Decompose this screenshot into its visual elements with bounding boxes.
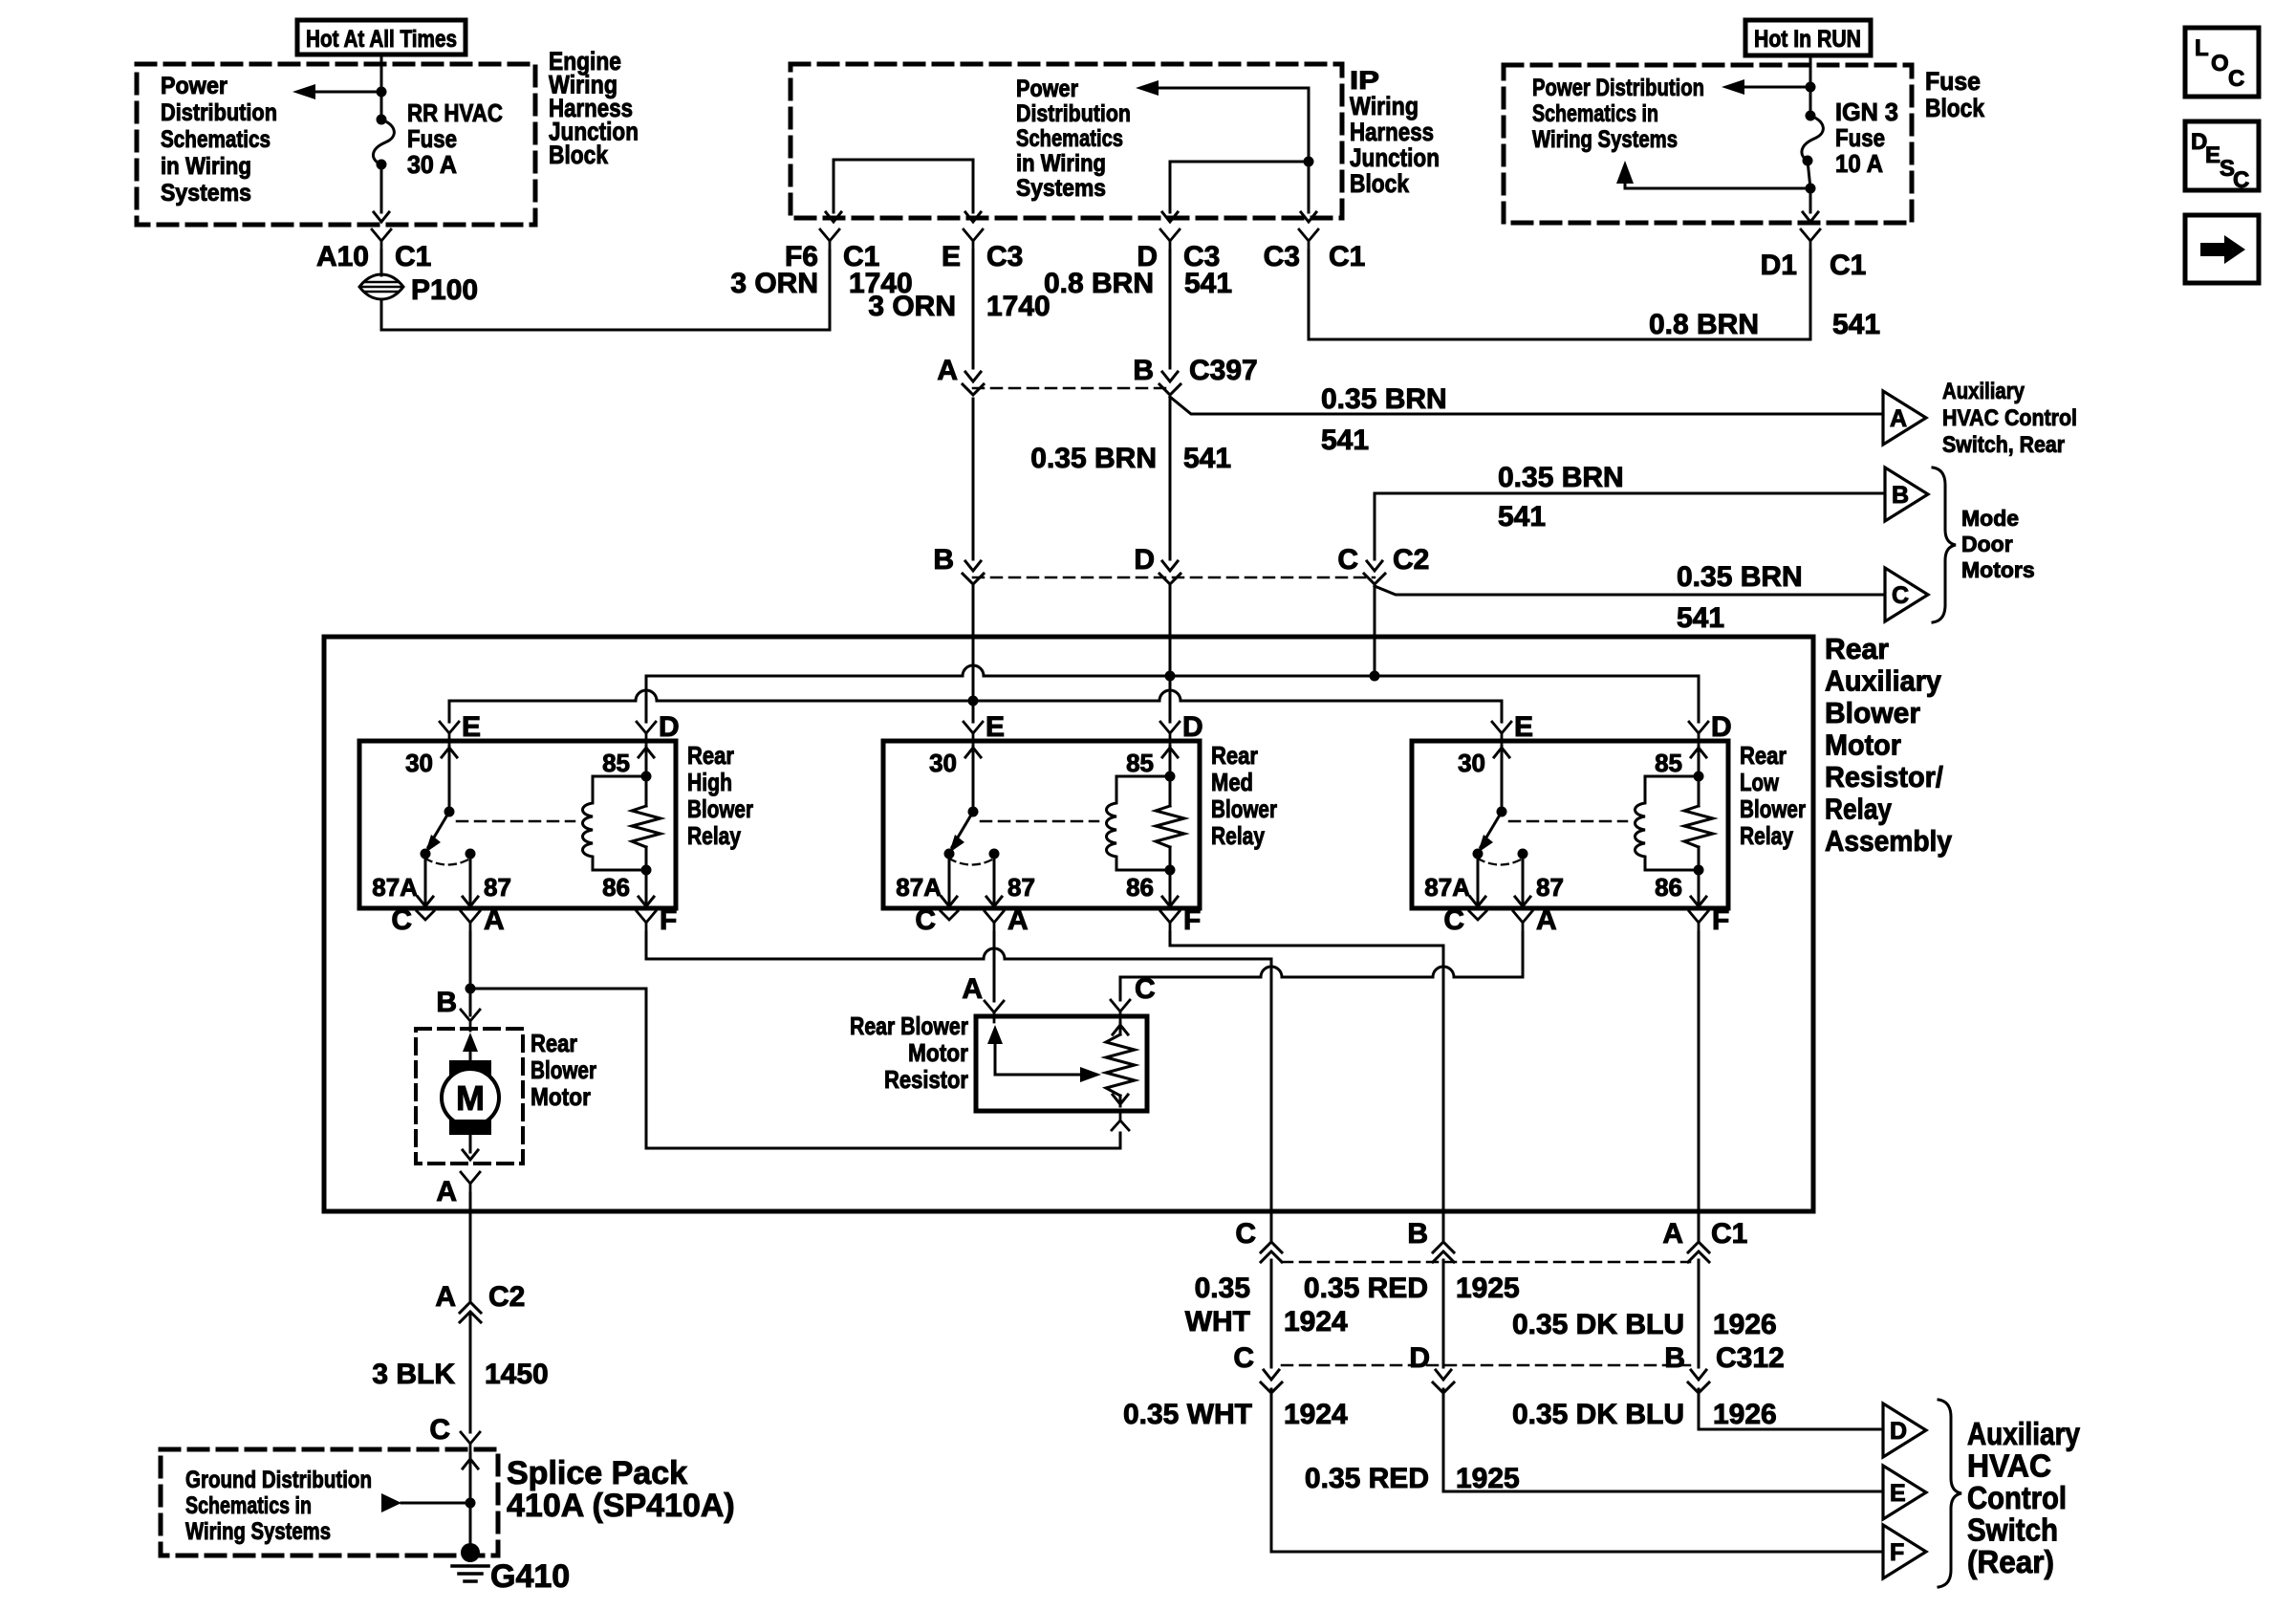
ground distribution box (dashed) — [161, 1449, 498, 1556]
svg-text:C: C — [1337, 544, 1358, 576]
relay High connector F (86) — [637, 911, 656, 923]
svg-text:Mode: Mode — [1961, 506, 2019, 531]
svg-text:L: L — [2195, 35, 2209, 61]
svg-text:0.35 RED: 0.35 RED — [1305, 1463, 1429, 1494]
dashed connector line C312 — [1282, 1364, 1690, 1367]
wire: splice into ground box — [469, 1453, 472, 1553]
svg-text:F: F — [660, 904, 677, 936]
connector D (relay Low pin 85) — [1689, 722, 1708, 733]
svg-text:87: 87 — [484, 873, 511, 902]
svg-text:3 ORN: 3 ORN — [730, 268, 818, 299]
svg-text:C1: C1 — [1830, 250, 1866, 281]
wire: internal bus to F6 and E drops — [834, 160, 973, 212]
svg-text:Med: Med — [1211, 768, 1253, 796]
svg-text:0.35 RED: 0.35 RED — [1304, 1273, 1428, 1304]
svg-text:Motor: Motor — [1825, 729, 1901, 762]
relay Med coil — [1107, 776, 1171, 870]
svg-text:87A: 87A — [1424, 873, 1470, 902]
svg-text:Motor: Motor — [908, 1038, 968, 1067]
svg-text:F: F — [1183, 904, 1201, 936]
bus wire: 0.35 BRN 541 control bus — [646, 665, 1699, 676]
relay Low dashed actuator link — [1509, 820, 1627, 823]
svg-text:A: A — [484, 904, 505, 936]
rear blower motor resistor box — [976, 1016, 1147, 1111]
svg-text:3 ORN: 3 ORN — [868, 291, 956, 322]
svg-text:87A: 87A — [896, 873, 942, 902]
dashed connector line C2 row — [973, 577, 1375, 579]
relay: Rear Low Blower Relay box — [1412, 741, 1728, 908]
svg-text:Switch, Rear: Switch, Rear — [1942, 432, 2065, 458]
wire: fuse output — [1808, 161, 1810, 188]
svg-text:85: 85 — [1655, 749, 1682, 777]
wire: motor ground down — [469, 1193, 472, 1302]
svg-text:C: C — [391, 904, 412, 936]
svg-text:C3: C3 — [1264, 241, 1300, 272]
svg-text:Block: Block — [1925, 94, 1985, 122]
svg-text:541: 541 — [1677, 602, 1724, 634]
connector A (resistor) — [985, 1001, 1004, 1012]
relay: Rear High Blower Relay box — [359, 741, 676, 908]
ground G410 — [461, 1543, 480, 1562]
LOC reference box — [2185, 28, 2259, 97]
relay Low switch — [1497, 807, 1507, 817]
wire: battery feed from Hot At All Times — [380, 54, 383, 120]
svg-text:C: C — [1443, 904, 1464, 936]
svg-text:Wiring Systems: Wiring Systems — [185, 1518, 331, 1545]
IP wiring harness junction block (dashed) — [791, 64, 1342, 218]
grommet P100 — [359, 274, 403, 299]
svg-text:B: B — [933, 544, 954, 576]
svg-text:85: 85 — [602, 749, 630, 777]
svg-text:Junction: Junction — [1350, 143, 1440, 172]
relay High connector A (87) — [461, 911, 480, 923]
triangle connector D — [1883, 1403, 1926, 1457]
svg-text:Systems: Systems — [1016, 175, 1106, 202]
svg-text:Blower: Blower — [687, 794, 753, 823]
svg-text:Auxiliary: Auxiliary — [1942, 379, 2025, 404]
svg-text:Hot In RUN: Hot In RUN — [1754, 26, 1861, 53]
wire: 0.35 DK BLU 1926 to switch D — [1699, 1389, 1883, 1429]
svg-text:C1: C1 — [1711, 1218, 1747, 1250]
wire: internal bus to D drop — [1170, 162, 1309, 212]
svg-text:IP: IP — [1350, 66, 1379, 95]
connector D (relay Med pin 85) — [1160, 722, 1180, 733]
svg-text:in Wiring: in Wiring — [161, 153, 251, 180]
blower motor symbol — [449, 1060, 491, 1076]
arrow branch: power distribution reference (up arrow) — [1625, 178, 1810, 188]
bus1 end drops to relay coils — [645, 676, 648, 722]
triangle connector F — [1883, 1525, 1926, 1578]
svg-text:Blower: Blower — [1211, 794, 1277, 823]
svg-text:M: M — [456, 1078, 485, 1118]
relay Low internal resistor — [1684, 806, 1713, 847]
connector C1 pin C — [1261, 1242, 1282, 1252]
svg-text:G410: G410 — [490, 1558, 570, 1595]
svg-text:1926: 1926 — [1713, 1309, 1777, 1340]
svg-text:Resistor: Resistor — [884, 1065, 968, 1094]
wire: E drop to relay2 switch — [972, 701, 975, 722]
connector E (relay High pin 30) — [440, 722, 459, 733]
wire: 3 ORN 1740 engine feed to IP block pin F6 — [381, 250, 830, 330]
svg-text:Auxiliary: Auxiliary — [1825, 664, 1942, 698]
svg-text:A: A — [1662, 1218, 1683, 1250]
svg-text:30: 30 — [405, 749, 433, 777]
relay Med pin 87 output — [993, 854, 996, 906]
wire: C2 drop into assembly box — [1374, 586, 1376, 676]
triangle connector C — [1885, 568, 1928, 621]
svg-text:Relay: Relay — [687, 821, 741, 850]
svg-text:86: 86 — [602, 873, 630, 902]
svg-text:in Wiring: in Wiring — [1016, 150, 1106, 177]
svg-text:C3: C3 — [986, 241, 1023, 272]
svg-text:Block: Block — [1350, 169, 1410, 198]
connector C312 pin C — [1264, 1370, 1279, 1380]
svg-text:Motor: Motor — [531, 1082, 591, 1111]
svg-text:Relay: Relay — [1740, 821, 1793, 850]
svg-text:1924: 1924 — [1284, 1399, 1348, 1430]
fuse IGN 3 10A — [1806, 111, 1816, 121]
svg-text:C: C — [1892, 582, 1909, 609]
svg-text:E: E — [1514, 711, 1533, 743]
wire: E drop into assembly box — [972, 586, 975, 701]
svg-text:C: C — [2233, 167, 2249, 193]
svg-text:Relay: Relay — [1825, 793, 1893, 826]
relay High cavity C (87A) — [417, 911, 434, 920]
svg-text:A: A — [962, 973, 983, 1005]
relay High dashed actuator link — [457, 820, 574, 823]
svg-text:(Rear): (Rear) — [1967, 1544, 2054, 1579]
svg-text:Fuse: Fuse — [407, 124, 457, 153]
svg-text:Blower: Blower — [1825, 696, 1920, 729]
svg-text:0.35 WHT: 0.35 WHT — [1123, 1399, 1252, 1430]
wire: E drop continues — [972, 399, 975, 559]
svg-text:0.8 BRN: 0.8 BRN — [1044, 268, 1154, 299]
wire: relay2 87 to resistor A — [993, 932, 996, 1001]
relay High pin 30 input — [442, 748, 457, 757]
svg-text:D: D — [1134, 544, 1155, 576]
svg-text:Assembly: Assembly — [1825, 824, 1953, 858]
svg-text:D: D — [659, 711, 680, 743]
svg-text:Schematics in: Schematics in — [1532, 100, 1658, 127]
svg-text:D: D — [1409, 1342, 1430, 1374]
wire: fuse output to connector D1 — [1809, 188, 1812, 212]
engine wiring harness junction block (dashed) — [137, 64, 535, 225]
arrow reference box — [2185, 215, 2259, 283]
svg-text:410A (SP410A): 410A (SP410A) — [507, 1488, 735, 1524]
resistor element — [1106, 1034, 1135, 1096]
relay Low cavity C (87A) — [1469, 911, 1486, 920]
wire: relay2 86/F to C1 pin B — [1170, 932, 1443, 1240]
motor ground lead — [469, 1135, 472, 1152]
svg-text:Relay: Relay — [1211, 821, 1265, 850]
svg-text:D: D — [1182, 711, 1203, 743]
svg-text:Schematics: Schematics — [161, 126, 271, 153]
svg-text:C1: C1 — [395, 241, 431, 272]
connector E (relay Low pin 30) — [1492, 722, 1511, 733]
wire: D drop continues — [1169, 399, 1172, 559]
wire: E drop down — [972, 250, 975, 368]
svg-text:86: 86 — [1126, 873, 1154, 902]
connector C1 pin B — [1433, 1242, 1454, 1252]
svg-text:Distribution: Distribution — [1016, 100, 1131, 127]
svg-text:B: B — [436, 987, 457, 1018]
relay Low pin 86 — [1698, 847, 1700, 906]
svg-text:0.35: 0.35 — [1195, 1273, 1250, 1304]
svg-text:C2: C2 — [1393, 544, 1429, 576]
relay Low coil — [1635, 776, 1700, 870]
svg-text:30 A: 30 A — [407, 150, 457, 179]
svg-text:Wiring Systems: Wiring Systems — [1532, 126, 1678, 153]
relay Med pin 86 — [1169, 847, 1172, 906]
svg-text:Rear Blower: Rear Blower — [850, 1012, 968, 1040]
svg-text:541: 541 — [1321, 424, 1369, 456]
wire: 0.8 BRN 541 from C3/C1 to fuse block D1 — [1309, 250, 1810, 339]
svg-text:C: C — [915, 904, 936, 936]
relay Med switch — [968, 807, 979, 817]
label box: Hot At All Times — [297, 20, 466, 54]
svg-text:F: F — [1890, 1539, 1904, 1566]
motor feed arrow — [463, 1033, 478, 1052]
svg-text:HVAC: HVAC — [1967, 1448, 2051, 1484]
svg-text:High: High — [687, 768, 732, 796]
wire: relay1 87 to motor B and resistor network — [469, 932, 472, 1015]
relay Low connector A (87) — [1513, 911, 1532, 923]
relay Med pin 30 input — [965, 748, 981, 757]
svg-text:Systems: Systems — [161, 180, 251, 207]
svg-text:O: O — [2211, 51, 2229, 76]
svg-text:A: A — [1536, 904, 1557, 936]
connector D (relay High pin 85) — [637, 722, 656, 733]
svg-text:A: A — [435, 1281, 456, 1313]
svg-text:0.8 BRN: 0.8 BRN — [1649, 309, 1759, 340]
wire: fuse output to connector — [380, 164, 383, 212]
connector E (relay Med pin 30) — [964, 722, 983, 733]
svg-text:541: 541 — [1183, 443, 1231, 474]
connector D1 / C1 — [1801, 229, 1820, 241]
relay High pin 87A output — [424, 854, 427, 906]
svg-text:WHT: WHT — [1185, 1306, 1250, 1338]
svg-text:87A: 87A — [372, 873, 418, 902]
splice junction — [466, 1498, 476, 1509]
svg-text:IGN 3: IGN 3 — [1835, 98, 1898, 126]
connector B (motor) — [461, 1010, 480, 1021]
svg-text:C1: C1 — [1329, 241, 1365, 272]
connector C2 pin C — [1367, 561, 1382, 571]
svg-text:0.35 BRN: 0.35 BRN — [1030, 443, 1157, 474]
svg-text:Blower: Blower — [531, 1055, 596, 1084]
svg-text:Power: Power — [1016, 76, 1078, 102]
wire: D drop through bus2 to relay2 coil — [1169, 676, 1172, 722]
svg-text:E: E — [1890, 1480, 1906, 1507]
svg-text:Power: Power — [161, 73, 227, 99]
wire: 0.8 BRN 541 down — [1809, 250, 1812, 339]
svg-text:A: A — [436, 1176, 457, 1207]
relay Med dashed actuator link — [981, 820, 1098, 823]
svg-text:0.35 BRN: 0.35 BRN — [1321, 383, 1447, 415]
relay Med pin 87A output — [948, 854, 951, 906]
resistor wiper arrow — [994, 1034, 997, 1075]
connector D / C3 — [1160, 229, 1180, 241]
rear auxiliary blower motor resistor/relay assembly box — [324, 637, 1813, 1211]
relay Med internal resistor — [1156, 806, 1184, 847]
svg-text:1926: 1926 — [1713, 1399, 1777, 1430]
svg-text:1925: 1925 — [1456, 1273, 1520, 1304]
svg-text:C2: C2 — [488, 1281, 525, 1313]
svg-text:A10: A10 — [316, 241, 369, 272]
svg-text:Distribution: Distribution — [161, 99, 277, 126]
wire: D drop into assembly box — [1169, 586, 1172, 676]
connector A10 / C1 — [372, 229, 391, 241]
wire: 3 BLK 1450 — [469, 1313, 472, 1432]
svg-text:0.35 DK BLU: 0.35 DK BLU — [1512, 1309, 1684, 1340]
relay Low pin 87A output — [1477, 854, 1480, 906]
svg-text:Auxiliary: Auxiliary — [1967, 1416, 2081, 1451]
connector F6 / C1 — [820, 229, 839, 241]
svg-text:1925: 1925 — [1456, 1463, 1520, 1494]
svg-text:Blower: Blower — [1740, 794, 1806, 823]
svg-text:3 BLK: 3 BLK — [372, 1359, 455, 1390]
relay High internal resistor — [632, 806, 661, 847]
svg-text:Resistor/: Resistor/ — [1825, 760, 1943, 794]
fuse RR HVAC 30A — [377, 115, 387, 125]
svg-text:0.35 BRN: 0.35 BRN — [1677, 561, 1803, 593]
arrow: to power distribution schematics (fuse) — [1733, 86, 1810, 89]
triangle connector B — [1885, 468, 1928, 521]
relay Med connector F (86) — [1160, 911, 1180, 923]
svg-text:C: C — [429, 1414, 450, 1446]
wire: relay3 86/F to C1 pin A — [1698, 932, 1700, 1240]
svg-text:541: 541 — [1184, 268, 1232, 299]
svg-text:Block: Block — [549, 141, 609, 169]
svg-text:Motors: Motors — [1961, 557, 2035, 582]
triangle connector A — [1883, 391, 1926, 445]
triangle connector E — [1883, 1466, 1926, 1519]
connector C2 row pin D — [1162, 561, 1178, 571]
svg-text:87: 87 — [1536, 873, 1564, 902]
wire: 0.35 WHT 1924 to switch F — [1271, 1389, 1883, 1552]
wire: mode door B feed from C2 — [1375, 493, 1885, 559]
relay High coil — [583, 776, 647, 870]
svg-text:E: E — [986, 711, 1005, 743]
brace: auxiliary HVAC control switch — [1939, 1400, 1961, 1587]
svg-text:85: 85 — [1126, 749, 1154, 777]
svg-text:Rear: Rear — [1825, 632, 1889, 665]
svg-text:F: F — [1712, 904, 1729, 936]
resistor bottom connector Y — [1119, 1111, 1122, 1120]
svg-text:Low: Low — [1740, 768, 1780, 796]
svg-text:Schematics in: Schematics in — [185, 1492, 312, 1519]
svg-text:Schematics: Schematics — [1016, 125, 1123, 152]
wire to grommet — [380, 250, 383, 275]
svg-text:Splice Pack: Splice Pack — [507, 1455, 687, 1491]
relay Low pin 85 coil feed — [1691, 748, 1706, 757]
svg-text:Switch: Switch — [1967, 1512, 2058, 1548]
svg-text:Wiring: Wiring — [1350, 92, 1419, 120]
svg-text:A: A — [1890, 405, 1907, 432]
svg-text:0.35 DK BLU: 0.35 DK BLU — [1512, 1399, 1684, 1430]
arrow: to power distribution schematics (engine) — [304, 91, 381, 94]
relay Low pin 30 input — [1494, 748, 1509, 757]
connector C397 pin A — [965, 372, 981, 381]
svg-text:P100: P100 — [411, 274, 478, 306]
dashed connector line C397 — [973, 387, 1170, 390]
svg-text:B: B — [1664, 1342, 1685, 1374]
relay Low connector F (86) — [1689, 911, 1708, 923]
connector C3 / C1 — [1299, 229, 1318, 241]
rear blower motor (dashed box) — [416, 1029, 523, 1164]
wire: relay1 86/F to C1 pin C — [645, 932, 648, 959]
svg-text:D: D — [1711, 711, 1732, 743]
relay Low pin 87 output — [1522, 854, 1525, 906]
svg-text:Harness: Harness — [1350, 118, 1434, 146]
relay Med cavity C (87A) — [941, 911, 958, 920]
svg-text:C397: C397 — [1189, 355, 1258, 386]
svg-text:Rear: Rear — [1211, 741, 1258, 770]
wire: 0.35 RED 1925 to switch E — [1443, 1389, 1883, 1491]
svg-text:D: D — [1890, 1418, 1907, 1445]
bus wire: 3 ORN 1740 power bus — [449, 690, 1502, 701]
relay High pin 87 output — [469, 854, 472, 906]
wire: resistor C to relay3 87 — [1119, 977, 1122, 1000]
svg-text:B: B — [1133, 355, 1154, 386]
junction node — [377, 87, 387, 98]
relay Med pin 85 coil feed — [1162, 748, 1178, 757]
svg-text:Fuse: Fuse — [1835, 123, 1885, 152]
wires between C1 and C312 — [1270, 1260, 1273, 1367]
svg-text:C312: C312 — [1716, 1342, 1785, 1374]
relay High pin 86 — [645, 847, 648, 906]
connector A (motor out) — [461, 1172, 480, 1184]
svg-text:Power Distribution: Power Distribution — [1532, 75, 1704, 101]
svg-text:RR HVAC: RR HVAC — [407, 98, 503, 127]
svg-text:E: E — [462, 711, 481, 743]
connector C1 pin A — [1688, 1242, 1709, 1252]
svg-text:1740: 1740 — [986, 291, 1051, 322]
svg-text:1450: 1450 — [485, 1359, 549, 1390]
svg-text:Rear: Rear — [687, 741, 734, 770]
svg-text:10 A: 10 A — [1835, 149, 1883, 178]
svg-text:C: C — [2228, 66, 2244, 92]
svg-text:D1: D1 — [1761, 250, 1797, 281]
svg-text:Rear: Rear — [531, 1029, 577, 1057]
svg-text:Hot At All Times: Hot At All Times — [306, 26, 457, 53]
svg-text:541: 541 — [1498, 501, 1546, 533]
wire: run feed from Hot In RUN — [1809, 55, 1812, 116]
relay: Rear Med Blower Relay box — [883, 741, 1200, 908]
relay High pin 85 coil feed — [639, 748, 654, 757]
relay High switch — [444, 807, 455, 817]
svg-text:B: B — [1407, 1218, 1428, 1250]
svg-text:30: 30 — [1458, 749, 1485, 777]
connector C2 row pin B — [965, 561, 981, 571]
relay Med connector A (87) — [985, 911, 1004, 923]
label box: Hot In RUN — [1745, 20, 1871, 55]
svg-text:87: 87 — [1007, 873, 1035, 902]
dashed connector line C1 — [1282, 1261, 1690, 1264]
svg-text:A: A — [937, 355, 958, 386]
svg-text:Control: Control — [1967, 1480, 2067, 1515]
DESC reference box — [2185, 121, 2259, 190]
connector C (resistor) — [1111, 1000, 1130, 1012]
connector C397 pin B — [1162, 372, 1178, 381]
svg-text:Door: Door — [1961, 532, 2013, 556]
svg-text:C: C — [1233, 1342, 1254, 1374]
svg-text:Rear: Rear — [1740, 741, 1787, 770]
arrow: from ground distribution schematics — [401, 1502, 470, 1505]
connector C312 pin B — [1691, 1370, 1706, 1380]
brace: mode door motors — [1933, 468, 1956, 622]
svg-text:541: 541 — [1832, 309, 1880, 340]
